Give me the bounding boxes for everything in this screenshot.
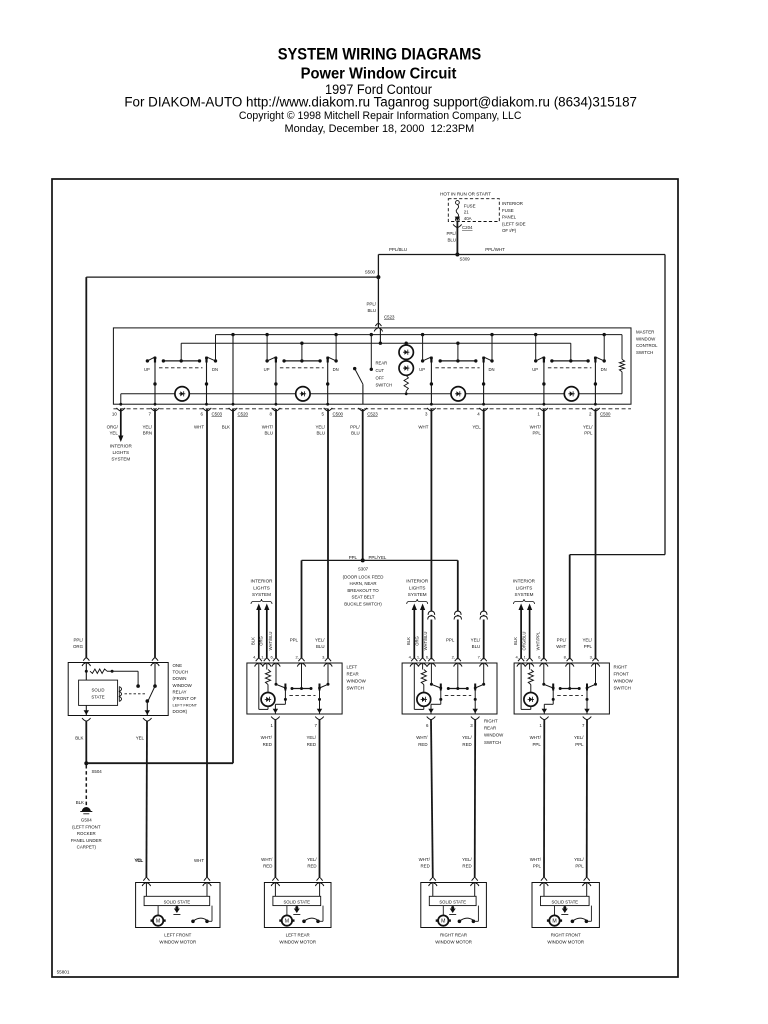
switch LR window DN [326,333,338,372]
right front switch UP contact [542,663,554,691]
svg-text:WINDOW: WINDOW [636,336,656,341]
svg-text:STATE: STATE [91,695,104,700]
svg-text:Copyright © 1998 Mitchell Repa: Copyright © 1998 Mitchell Repair Informa… [239,110,522,122]
wire S500 left branch [86,276,378,278]
svg-text:UP: UP [532,367,538,372]
right rear switch input connectors [409,655,488,667]
right rear motor input connectors [419,857,479,886]
resistor master illumination [619,335,624,394]
svg-text:ORG: ORG [73,644,84,649]
svg-text:RED: RED [263,742,272,747]
svg-text:40A: 40A [464,216,472,221]
svg-text:DOWN: DOWN [173,676,187,681]
lamp bus wire [119,394,622,406]
svg-text:For DIAKOM-AUTO http://www.dia: For DIAKOM-AUTO http://www.diakom.ru Tag… [124,94,637,109]
wire BLK to splice S504 [232,409,234,763]
svg-text:6: 6 [426,723,429,728]
svg-text:5: 5 [322,412,325,417]
svg-text:DOOR): DOOR) [173,709,188,714]
svg-text:ORG: ORG [414,636,419,646]
svg-text:INTERIOR: INTERIOR [513,579,536,584]
svg-text:PPL: PPL [575,742,584,747]
svg-text:UP: UP [144,367,150,372]
svg-text:PPL/BLU: PPL/BLU [389,247,407,252]
left front motor [151,906,166,926]
wire ORG/YEL to interior lights [110,409,133,461]
splice S500 [365,270,381,280]
right rear window motor box [421,883,487,928]
switch RR window DN [482,333,494,372]
svg-text:WINDOW MOTOR: WINDOW MOTOR [435,940,472,945]
wire YEL/BLU to left rear switch [315,409,328,659]
svg-text:7,: 7, [478,655,481,660]
svg-text:C500: C500 [600,412,611,417]
svg-text:YEL: YEL [136,736,145,741]
label left rear window motor [279,933,316,945]
svg-text:CARPET): CARPET) [77,845,97,850]
wire YEL/RED right rear to motor [474,720,477,879]
svg-text:PPL: PPL [584,644,593,649]
svg-text:PPL/: PPL/ [557,638,567,643]
svg-text:PPL: PPL [290,638,299,643]
svg-text:SOLID STATE: SOLID STATE [164,899,191,904]
splice S309 [455,253,470,262]
master pin 7 stub [142,408,159,436]
right front switch illumination lamp [521,663,538,709]
right front window switch box [514,663,609,714]
svg-text:INTERIOR: INTERIOR [502,201,523,206]
svg-text:YEL/: YEL/ [142,425,152,430]
svg-text:INTERIOR: INTERIOR [251,579,274,584]
svg-text:2,: 2, [295,655,298,660]
right front window motor box [532,883,599,928]
wire down to S500 [377,255,379,278]
svg-text:LIGHTS: LIGHTS [516,585,533,590]
wire PPL/WHT right side down [556,255,665,660]
svg-text:YEL/: YEL/ [574,857,584,862]
svg-text:ONE: ONE [173,663,183,668]
svg-text:C523: C523 [384,315,395,320]
svg-text:BLK: BLK [75,736,83,741]
svg-text:PPL/WHT: PPL/WHT [485,247,505,252]
svg-text:WHT: WHT [556,644,566,649]
splice S307 door lock feed [343,555,387,607]
svg-text:SWITCH: SWITCH [614,686,631,691]
splice S504 [84,761,233,774]
right rear switch illumination lamp [414,663,430,709]
wire YEL to right rear switch [471,409,488,659]
svg-text:INTERIOR: INTERIOR [406,579,429,584]
label one touch down window relay [173,663,198,714]
svg-text:1: 1 [537,412,540,417]
bus wire upper [216,334,623,336]
svg-text:PPL: PPL [446,638,455,643]
svg-text:BLU: BLU [351,431,360,436]
master window control switch box [113,328,631,404]
svg-text:WHT: WHT [194,425,204,430]
left front window motor box [136,883,220,928]
svg-text:7: 7 [582,723,585,728]
svg-text:INTERIOR: INTERIOR [110,444,133,449]
switch RR feed bar [439,342,478,363]
right rear window switch box [402,663,497,714]
fuse 21 40A [456,201,476,222]
svg-text:YEL: YEL [472,425,481,430]
svg-text:4: 4 [477,412,480,417]
left rear switch mechanical link [289,694,315,696]
svg-text:REAR: REAR [376,361,388,366]
switch RF output wires [542,363,597,406]
svg-text:BLU: BLU [447,238,456,243]
title line 2 [301,66,457,83]
relay coil [119,687,145,702]
svg-text:PPL/: PPL/ [73,638,83,643]
switch RF feed bar [550,343,590,362]
right front motor input connectors [530,857,591,886]
svg-text:SOLID STATE: SOLID STATE [283,899,310,904]
master pin C523 stub [350,408,378,436]
svg-text:S500: S500 [365,270,376,275]
svg-text:LIGHTS: LIGHTS [253,585,270,590]
svg-text:(FRONT OF: (FRONT OF [173,696,197,701]
left rear switch UP contact [275,663,287,691]
right front switch mechanical link [557,694,583,696]
svg-text:1,: 1, [524,655,527,660]
svg-text:RED: RED [418,742,427,747]
svg-text:WINDOW: WINDOW [484,733,504,738]
svg-text:WHT/: WHT/ [261,857,273,862]
svg-text:8,: 8, [564,655,567,660]
switch LF window DN [205,335,218,373]
svg-text:2,: 2, [452,655,455,660]
left front motor solid state module [144,883,210,906]
svg-text:SYSTEM: SYSTEM [111,456,130,461]
right rear switch DN contact [474,663,485,691]
svg-text:YEL/: YEL/ [583,425,593,430]
svg-text:7: 7 [315,723,318,728]
svg-text:C523: C523 [367,412,378,417]
wire WHT/PPL to right front switch [543,409,545,659]
svg-text:YEL/: YEL/ [306,735,316,740]
svg-text:HOT IN RUN OR START: HOT IN RUN OR START [440,192,491,197]
right rear motor thermal limiter [449,906,456,915]
svg-text:WINDOW MOTOR: WINDOW MOTOR [279,940,316,945]
svg-text:SWITCH: SWITCH [347,686,364,691]
svg-text:SYSTEM: SYSTEM [252,592,271,597]
svg-text:BLU: BLU [367,308,376,313]
svg-text:(LEFT SIDE: (LEFT SIDE [502,221,526,226]
label right rear window switch [484,719,504,745]
svg-text:YEL: YEL [109,431,118,436]
svg-text:SYSTEM: SYSTEM [408,592,427,597]
svg-text:PPL/: PPL/ [366,302,376,307]
svg-text:8: 8 [270,412,273,417]
svg-text:PPL: PPL [575,864,584,869]
svg-text:10: 10 [112,412,117,417]
relay input connectors [82,658,159,666]
svg-text:UP: UP [419,367,425,372]
svg-text:SYSTEM: SYSTEM [515,592,534,597]
wire WHT to left front motor [206,409,208,878]
wire WHT/RED right rear to motor [431,720,433,879]
svg-text:UP: UP [264,367,270,372]
svg-text:LEFT FRONT: LEFT FRONT [164,933,191,938]
left rear motor thermal limiter [293,906,300,915]
svg-text:RED: RED [421,864,430,869]
master switch connector dashed edge [113,408,631,410]
svg-text:6: 6 [201,412,204,417]
svg-text:FUSE: FUSE [464,204,476,209]
svg-text:C204: C204 [462,225,473,230]
svg-text:PPL/: PPL/ [350,425,360,430]
svg-text:RIGHT: RIGHT [484,719,498,724]
svg-text:6,: 6, [270,655,273,660]
svg-text:M: M [552,919,556,925]
switch RR window UP [419,333,433,372]
right rear switch feed bar [447,663,469,690]
svg-text:OFF: OFF [376,375,385,380]
svg-text:YEL/: YEL/ [307,857,317,862]
svg-text:DN: DN [488,367,494,372]
switch RF window UP [532,333,545,372]
svg-text:6,: 6, [426,655,429,660]
switch LR output wires [274,363,329,406]
right rear switch outputs [416,691,479,747]
switch LF window UP [144,357,157,373]
wire YEL/PPL right front to motor [586,720,588,879]
svg-text:WINDOW: WINDOW [173,683,193,688]
right front motor [547,906,562,926]
label HOT IN RUN OR START [440,192,491,197]
svg-text:ORG: ORG [259,636,264,646]
left front motor input connectors [135,858,211,886]
svg-text:6,: 6, [538,655,541,660]
svg-text:DN: DN [212,367,218,372]
right rear motor solid state module [429,883,476,906]
svg-text:REAR: REAR [484,726,496,731]
label right front window switch [614,665,634,691]
svg-text:(DOOR LOCK FEED: (DOOR LOCK FEED [343,574,384,579]
right rear motor switch [458,906,479,924]
svg-text:BLK: BLK [251,637,256,645]
right front motor switch [571,906,592,924]
switch LF output wires [153,363,208,406]
right front motor thermal limiter [561,906,568,915]
svg-text:SWITCH: SWITCH [636,350,653,355]
connector C204 [453,217,473,230]
master pin 10 stub [107,408,126,436]
svg-text:RED: RED [462,742,471,747]
svg-text:3,: 3, [322,655,325,660]
svg-text:PPL: PPL [349,555,358,560]
lamp RR illumination [451,387,465,401]
svg-text:LIGHTS: LIGHTS [409,585,426,590]
label right front window motor [547,933,584,945]
rear cut off switch [353,333,392,404]
left rear window motor box [264,883,331,928]
svg-text:3,: 3, [590,655,593,660]
left front motor switch [191,906,212,924]
left rear switch DN contact [318,663,329,691]
svg-text:WHT/PPL: WHT/PPL [536,631,541,650]
master pin 2 stub [583,408,611,436]
svg-text:ORG/: ORG/ [107,425,119,430]
svg-text:RIGHT FRONT: RIGHT FRONT [551,933,581,938]
right front switch feed bar [559,663,581,690]
svg-text:RELAY: RELAY [173,689,187,694]
right rear switch UP contact [430,663,442,691]
left rear motor switch [302,906,323,924]
svg-text:C500: C500 [333,412,344,417]
switch RF mechanical link [548,367,592,369]
right front switch outputs [530,691,592,747]
svg-text:WHT/: WHT/ [530,425,542,430]
svg-text:S309: S309 [460,257,471,262]
svg-text:YEL/: YEL/ [315,425,325,430]
svg-text:YEL/: YEL/ [471,638,481,643]
svg-text:C503: C503 [212,412,223,417]
label left rear window switch [347,665,367,691]
svg-text:BRN: BRN [143,431,152,436]
svg-text:SOLID STATE: SOLID STATE [439,899,466,904]
wire WHT to right rear switch [428,409,435,659]
svg-text:BREAKOUT TO: BREAKOUT TO [347,588,379,593]
svg-text:BUCKLE SWITCH): BUCKLE SWITCH) [344,602,382,607]
wire C523 entry to bus [379,328,382,345]
title line 1 [278,44,482,63]
left rear window switch box [247,663,342,714]
svg-text:BLU: BLU [472,644,481,649]
svg-text:WHT/: WHT/ [262,425,274,430]
relay solid state module [79,680,118,705]
svg-text:3: 3 [470,723,473,728]
svg-text:PANEL UNDER: PANEL UNDER [71,838,102,843]
lamp LR illumination [296,387,310,401]
relay resistor [85,663,140,688]
svg-text:4,: 4, [409,655,412,660]
relay switch [146,663,157,716]
relay output BLK [75,705,90,763]
master pin 6 stub [194,408,223,430]
lamp LF illumination [175,387,189,401]
switch LR window UP [264,333,278,372]
svg-text:CUT: CUT [376,368,385,373]
svg-text:BLK: BLK [76,800,84,805]
svg-text:55801: 55801 [57,970,70,975]
svg-text:RED: RED [462,864,471,869]
svg-text:FRONT: FRONT [614,672,629,677]
switch RR output wires [430,363,486,406]
interior lights arrows left rear [251,579,274,659]
svg-text:YEL/: YEL/ [582,638,592,643]
left rear motor input connectors [261,857,324,886]
svg-text:YEL/: YEL/ [462,857,472,862]
switch LR feed bar [282,342,321,363]
wire YEL/BRN to relay [154,409,156,659]
left rear switch outputs [261,691,324,747]
master pin 5 stub [315,408,343,436]
svg-text:PPL/YEL: PPL/YEL [369,555,387,560]
svg-text:RED: RED [263,864,272,869]
svg-text:(LEFT FRONT: (LEFT FRONT [72,824,101,829]
svg-text:Monday, December 18, 2000 12:: Monday, December 18, 2000 12:23PM [285,123,475,135]
svg-text:PPL: PPL [532,742,541,747]
svg-text:LEFT REAR: LEFT REAR [286,933,310,938]
svg-text:ORG/BLU: ORG/BLU [521,632,526,651]
label right rear window motor [435,933,472,945]
svg-text:LIGHTS: LIGHTS [113,450,130,455]
date line [285,123,475,135]
svg-text:SOLID: SOLID [92,688,105,693]
lamp stack lower [399,361,413,395]
label master window control switch [636,330,658,355]
svg-text:TOUCH: TOUCH [173,670,189,675]
wire S309 left PPL/BLU [378,247,457,255]
svg-text:WINDOW: WINDOW [614,679,634,684]
master pin 1 stub [530,408,549,436]
right front motor solid state module [541,883,590,906]
svg-text:FUSE: FUSE [502,208,514,213]
master pin C520 stub [222,408,249,430]
svg-text:4,: 4, [515,655,518,660]
svg-text:RIGHT: RIGHT [614,665,628,670]
svg-text:1: 1 [270,723,273,728]
svg-text:1,: 1, [417,655,420,660]
svg-text:YEL: YEL [135,858,144,863]
svg-text:C520: C520 [238,412,249,417]
svg-text:S504: S504 [92,769,103,774]
svg-text:1: 1 [539,723,542,728]
svg-text:WHT/: WHT/ [261,735,273,740]
svg-text:4,: 4, [253,655,256,660]
svg-text:HARN, NEAR: HARN, NEAR [349,581,376,586]
master pin 3 stub [418,408,435,430]
svg-text:REAR: REAR [347,672,359,677]
svg-text:WHT/: WHT/ [530,735,542,740]
svg-text:WHT/BLU: WHT/BLU [423,632,428,651]
left rear switch illumination lamp [259,663,275,709]
svg-text:YEL/: YEL/ [462,735,472,740]
svg-text:WHT/: WHT/ [530,857,542,862]
wire PPL/ORG down to relay [73,277,86,658]
svg-text:SEAT BELT: SEAT BELT [352,595,375,600]
svg-text:CONTROL: CONTROL [636,343,658,348]
left rear motor solid state module [273,883,321,906]
svg-text:PPL: PPL [532,431,541,436]
svg-text:PANEL: PANEL [502,215,517,220]
svg-text:21: 21 [464,210,469,215]
svg-text:WINDOW MOTOR: WINDOW MOTOR [547,940,584,945]
switch LR mechanical link [280,367,324,369]
svg-text:YEL/: YEL/ [315,638,325,643]
svg-text:Power Window Circuit: Power Window Circuit [301,66,457,83]
svg-text:BLK: BLK [406,637,411,645]
svg-text:RED: RED [307,742,316,747]
subtitle 1997 Ford Contour [325,82,432,98]
wire PPL/YEL branch to right rear switch [363,560,462,659]
svg-text:WHT/: WHT/ [416,735,428,740]
svg-text:BLU: BLU [316,431,325,436]
switch LF feed bar [162,343,202,362]
ground G504 [71,765,102,850]
wire PPL/BLU to splice S307 [362,409,364,560]
svg-text:WINDOW: WINDOW [347,679,367,684]
svg-text:WHT: WHT [418,425,428,430]
svg-text:WHT/BLU: WHT/BLU [268,632,273,651]
svg-text:BLU: BLU [264,431,273,436]
master pin 4 stub [472,408,488,430]
left front motor thermal limiter [173,906,180,915]
